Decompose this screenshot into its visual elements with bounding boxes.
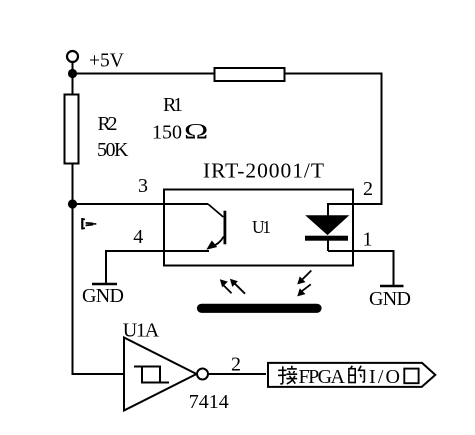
flag char: de (of) bbox=[349, 366, 365, 383]
svg-text:IRT-20001/T: IRT-20001/T bbox=[203, 159, 324, 183]
flag char: kou (port) bbox=[404, 369, 418, 384]
IR emitted arrows (right pair, down-left) bbox=[297, 271, 311, 297]
+5V terminal circle bbox=[67, 51, 78, 70]
svg-text:50K: 50K bbox=[97, 139, 129, 161]
schmitt hysteresis symbol bbox=[134, 367, 169, 383]
LED D (inside U1) bbox=[305, 216, 348, 251]
svg-text:GND: GND bbox=[82, 285, 124, 307]
ground right bbox=[380, 285, 404, 288]
inverter output bubble bbox=[197, 369, 208, 380]
phototransistor Q (inside U1) bbox=[206, 204, 225, 250]
svg-text:U1: U1 bbox=[252, 217, 271, 237]
junction node left rail / pin3 bbox=[68, 199, 77, 208]
wire +5V rail to R1 bbox=[73, 73, 216, 75]
resistor R1 bbox=[215, 68, 285, 81]
FPGA port flag outline bbox=[268, 363, 435, 387]
svg-text:U1A: U1A bbox=[123, 320, 160, 342]
svg-text:3: 3 bbox=[138, 175, 148, 197]
ground left bbox=[92, 283, 117, 286]
resistor R2 bbox=[65, 74, 79, 205]
wire pin 1 to GND bbox=[328, 251, 394, 285]
svg-text:+5V: +5V bbox=[89, 51, 124, 72]
svg-text:150: 150 bbox=[152, 122, 182, 144]
IR reflected arrows (left pair, up-left) bbox=[220, 279, 245, 294]
svg-text:R1: R1 bbox=[163, 94, 183, 116]
svg-text:2: 2 bbox=[231, 354, 241, 376]
svg-text:R2: R2 bbox=[98, 113, 118, 135]
wire pin 3 bbox=[73, 203, 209, 205]
svg-text:2: 2 bbox=[363, 178, 373, 200]
optocoupler U1 box bbox=[164, 190, 353, 266]
wire pin 4 to GND bbox=[106, 251, 209, 284]
svg-text:1: 1 bbox=[363, 229, 373, 251]
reflector bar bbox=[202, 304, 318, 313]
flag char: jie (connect) bbox=[278, 366, 297, 384]
svg-text:GND: GND bbox=[369, 288, 411, 310]
wire R1 to LED anode (right rail) bbox=[285, 74, 382, 217]
junction node at +5V rail bbox=[68, 69, 77, 78]
svg-text:4: 4 bbox=[133, 226, 143, 248]
inverter U1A triangle bbox=[124, 338, 197, 411]
net flag A bbox=[82, 218, 96, 230]
left rail down to inverter input bbox=[73, 204, 125, 374]
svg-text:FPGA: FPGA bbox=[299, 366, 346, 388]
output wire pin 2 bbox=[208, 373, 266, 375]
svg-text:Ω: Ω bbox=[184, 119, 208, 144]
svg-text:7414: 7414 bbox=[189, 391, 229, 413]
